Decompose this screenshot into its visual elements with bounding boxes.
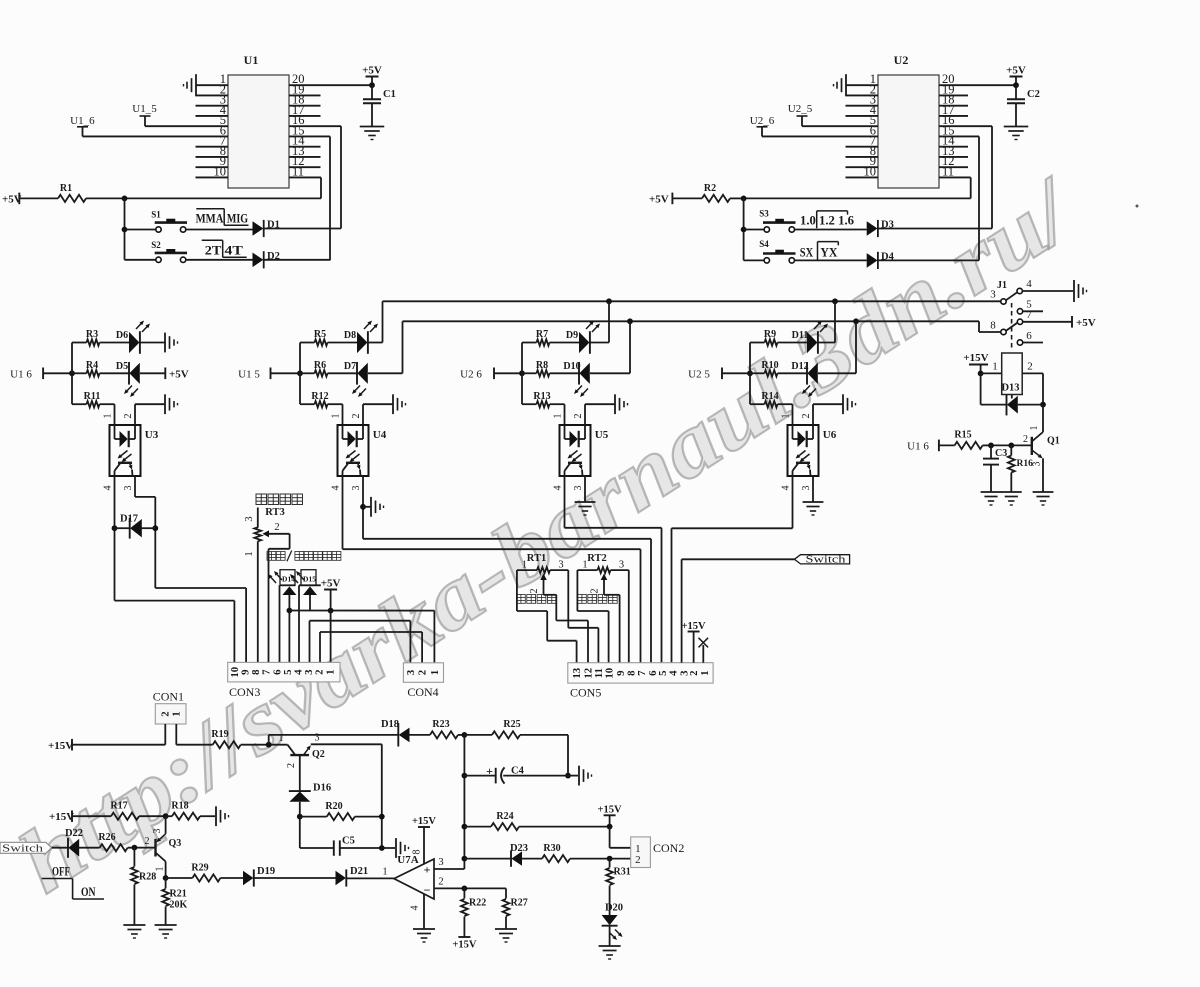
svg-text:11: 11 [942, 164, 954, 178]
wire junction down to S4 [741, 198, 747, 260]
power +15V rail (R17) [49, 810, 74, 823]
wire junction down to S2 [122, 198, 128, 259]
ground below C1 [360, 127, 385, 140]
svg-text:CON3: CON3 [229, 685, 260, 699]
svg-text:+15V: +15V [963, 352, 988, 364]
svg-text:1: 1 [781, 414, 792, 419]
resistor R11 [72, 391, 115, 407]
svg-text:C2: C2 [1027, 89, 1040, 100]
svg-text:+5V: +5V [649, 193, 669, 205]
node C5 right [379, 845, 385, 851]
wire U1 pin15 to D2 cathode [329, 136, 331, 260]
svg-text:1: 1 [1029, 426, 1040, 431]
node R20 left [297, 814, 303, 820]
wire +5V down to CON3 pin1 [330, 611, 332, 663]
IC U2 body [878, 53, 939, 188]
ground at U4 pin2 [393, 394, 406, 414]
node bus A / D9 [606, 298, 612, 304]
node D13 cathode junction [1040, 402, 1046, 408]
svg-text:2: 2 [417, 670, 429, 675]
wire U2 pin16 to D3 cathode [991, 126, 993, 228]
wire S4 to D4 [795, 259, 867, 261]
wire D15 anode stub [309, 595, 311, 611]
wire U6 group vertical [749, 343, 751, 405]
svg-text:U1 6: U1 6 [907, 440, 929, 452]
wire RT1 pin1 to CON5 pin13 [517, 570, 577, 663]
connector CON1 [153, 690, 186, 724]
svg-text:U7A: U7A [397, 854, 418, 866]
J1 switch arm 8-7 [1006, 323, 1017, 331]
node D13 pin1 [978, 371, 984, 377]
svg-text:SX: SX [800, 244, 814, 259]
resistor R18 [166, 801, 215, 820]
U2 left pins 1-10 [846, 72, 879, 178]
wire S1 to D1 [186, 229, 253, 231]
component D13 box [1001, 353, 1022, 395]
resistor R21 [162, 878, 187, 925]
wire D8 to bus A [368, 301, 383, 342]
svg-text:7: 7 [1026, 309, 1032, 321]
svg-text:U5: U5 [595, 429, 609, 441]
wire top rail to D18 [269, 735, 399, 745]
node U4 pin3 / ground [360, 504, 366, 510]
svg-text:R14: R14 [761, 391, 778, 402]
wire S2 to D2 [186, 259, 253, 261]
LED D12 [791, 361, 817, 397]
svg-text:D9: D9 [566, 330, 578, 341]
svg-text:U1_5: U1_5 [132, 103, 157, 115]
svg-text:+15V: +15V [48, 740, 73, 752]
diode D1 [253, 220, 280, 238]
resistor R5 [300, 329, 357, 346]
svg-text:2: 2 [123, 414, 134, 419]
node R17/R18/Q1 [163, 813, 169, 819]
svg-text:R22: R22 [469, 898, 486, 909]
wire U6 pin4 to CON5 pin4 [672, 476, 793, 663]
node R26/R28 [132, 845, 138, 851]
IC U1 body [228, 53, 289, 188]
svg-text:3: 3 [990, 289, 996, 301]
resistor R22 [461, 888, 486, 937]
U3 pin3 stub [123, 486, 134, 491]
wire R11 to U3 pin1 [103, 404, 115, 425]
wire D2 to pin15 net [264, 259, 330, 261]
svg-text:D18: D18 [381, 719, 399, 730]
ground after D6 [165, 333, 178, 353]
power +5V left rail [2, 193, 22, 206]
svg-text:Switch: Switch [806, 555, 847, 566]
svg-text:R21: R21 [170, 889, 187, 900]
wire RT2 pin1 to CON5 pin10 [577, 570, 608, 663]
power +5V indicator rail [321, 578, 341, 611]
LED D15 [290, 570, 321, 595]
net label U1 6 (Q1) [907, 440, 939, 453]
wire U1 pin16 to D1 cathode [340, 126, 342, 228]
resistor R19 [176, 729, 287, 748]
node R19 / D18 rail [266, 742, 272, 748]
wire D7 to bus B [368, 321, 403, 373]
svg-text:U2_5: U2_5 [788, 103, 813, 115]
potentiometer RT2 [577, 553, 628, 595]
node R15/R16 [1008, 443, 1014, 449]
svg-text:R3: R3 [86, 329, 98, 340]
svg-text:R4: R4 [86, 360, 98, 371]
svg-text:U2_6: U2_6 [750, 115, 775, 127]
svg-text:1.2 1.6: 1.2 1.6 [819, 212, 854, 227]
wire U2 5 to junction [722, 370, 753, 376]
resistor R27 [503, 888, 528, 929]
ground below C2 [1004, 127, 1029, 140]
svg-text:R28: R28 [139, 872, 156, 883]
ground below U6 pin3 [803, 502, 824, 515]
J1 pin 5 [1017, 299, 1043, 314]
svg-text:+15V: +15V [49, 811, 74, 823]
svg-text:6: 6 [1026, 330, 1032, 342]
wire U2 pin15 to D4 cathode [978, 136, 980, 260]
svg-text:C5: C5 [342, 836, 355, 847]
wire U7A pin3 [434, 857, 464, 869]
LED D14 [268, 570, 296, 595]
svg-text:U2 5: U2 5 [688, 368, 710, 380]
label MMA/MIG [196, 209, 249, 226]
power +15V at CON5 pin2 [682, 621, 706, 663]
wire R12 to U4 pin1 [331, 404, 343, 425]
net flag Switch (right) [794, 555, 849, 566]
ground at U1 pin 1 [184, 74, 197, 96]
svg-text:2: 2 [438, 876, 443, 887]
no-connect X at CON5 pin1 [699, 638, 709, 663]
svg-text:U1: U1 [244, 53, 259, 67]
switch S4 [744, 239, 796, 263]
optocoupler U3 [110, 425, 159, 476]
svg-text:R1: R1 [60, 183, 72, 194]
svg-text:J1: J1 [997, 280, 1007, 291]
node +5V / CON3 pin1 [328, 608, 334, 614]
LED D8 [344, 321, 378, 354]
svg-text:1: 1 [992, 360, 998, 372]
svg-text:R23: R23 [432, 719, 449, 730]
svg-text:R8: R8 [536, 360, 548, 371]
LED D9 [566, 321, 600, 354]
U4 pin3 stub [351, 486, 362, 491]
net label U1_5 [132, 103, 157, 126]
wire CON1 pin2 down [164, 724, 166, 745]
svg-text:R10: R10 [761, 360, 778, 371]
ground at U3 pin2 [165, 394, 178, 414]
svg-text:R26: R26 [98, 832, 115, 843]
svg-text:2: 2 [801, 414, 812, 419]
resistor R14 [750, 391, 793, 407]
optocoupler U5 [560, 425, 609, 476]
wire R24 node to CON2 pin1 [610, 827, 631, 848]
resistor R3 [72, 329, 129, 346]
wire RT3 wiper to CON3 pin7 [269, 534, 290, 663]
power +5V at U1 pin 20 [362, 65, 382, 86]
wire D3 to pin16 net [878, 228, 992, 230]
wire D13 left branch [981, 373, 1007, 404]
svg-text:R27: R27 [511, 898, 528, 909]
power +15V at R24/CON2 [598, 804, 622, 826]
diode D4 [867, 251, 895, 269]
op-amp U7A [394, 854, 434, 899]
ground at U2 pin 1 [834, 74, 847, 96]
power +5V at U2 pin 20 [1006, 65, 1026, 86]
svg-text:U1_6: U1_6 [70, 115, 95, 127]
resistor R6 [300, 360, 357, 377]
resistor R7 [522, 329, 579, 346]
svg-text:YX: YX [820, 244, 838, 259]
resistor R25 [464, 719, 568, 739]
wire U7A pin2 [434, 876, 506, 888]
wire D21 to U7A output [346, 866, 394, 878]
wire Q2 emitter to R20 net [311, 744, 382, 848]
svg-text:R18: R18 [171, 801, 188, 812]
svg-text:R19: R19 [211, 729, 228, 740]
svg-text:R25: R25 [503, 719, 520, 730]
svg-text:U2 6: U2 6 [460, 368, 482, 380]
node D14 anode rail [287, 608, 293, 614]
resistor R2 [672, 183, 743, 202]
svg-text:+15V: +15V [598, 804, 622, 815]
net label U2 6 (U5 group) [460, 368, 494, 381]
J1 pin 7 [1017, 309, 1032, 324]
svg-text:4: 4 [781, 486, 792, 491]
svg-text:D10: D10 [563, 361, 580, 372]
LED D20 [602, 903, 623, 941]
LED D5 [116, 361, 140, 397]
J1 dashed link [1011, 303, 1013, 351]
net label U1 6 (U3 group) [10, 368, 43, 381]
node pin2/R22 [462, 886, 468, 892]
diode D16 [289, 783, 331, 802]
svg-text:S3: S3 [759, 209, 769, 219]
svg-text:C1: C1 [383, 89, 396, 100]
wire U4 pin3 to CON5 pin6 [363, 476, 651, 663]
label arc-characteristic (CJK) [256, 494, 303, 505]
svg-text:10: 10 [604, 668, 616, 679]
ground after R18 [216, 806, 229, 826]
resistor R4 [72, 360, 129, 377]
resistor R13 [522, 391, 565, 407]
capacitor C1 [363, 85, 396, 126]
U1 right pins 11-20 [289, 72, 372, 178]
svg-text:2: 2 [529, 588, 540, 593]
capacitor C2 [1007, 85, 1040, 126]
label RT2 value (CJK) [578, 595, 618, 604]
J1 pin 6 [1017, 330, 1043, 345]
resistor R29 [166, 863, 243, 882]
label SX/YX [800, 242, 839, 260]
power +15V below R22 [452, 937, 476, 951]
svg-text:D5: D5 [116, 361, 128, 372]
power +5V rail (U2 side) [649, 193, 672, 206]
resistor R28 [131, 848, 156, 925]
node R15/C3 [988, 443, 994, 449]
svg-text:S2: S2 [151, 240, 161, 250]
wire U5 group vertical [521, 343, 523, 405]
wire U1 pin11 to +5V rail [320, 177, 322, 198]
svg-text:2: 2 [590, 588, 601, 593]
svg-text:4: 4 [1026, 278, 1032, 290]
svg-text:1.0: 1.0 [800, 212, 816, 227]
svg-text:+15V: +15V [412, 816, 436, 827]
svg-text:2: 2 [145, 836, 150, 847]
svg-text:3: 3 [351, 486, 362, 491]
svg-text:D13: D13 [1001, 383, 1019, 394]
wire D15 cathode to CON3 pin4 [298, 585, 300, 662]
wire U2_6 to pin 6 [762, 135, 878, 137]
resistor R10 [750, 360, 807, 377]
net label U2 5 (U6 group) [688, 368, 722, 381]
svg-text:RT2: RT2 [587, 553, 606, 564]
svg-text:10: 10 [214, 164, 227, 178]
svg-text:1: 1 [522, 560, 527, 571]
diode D3 [867, 220, 894, 238]
power +15V rail (CON1) [48, 739, 73, 752]
wire U1_5 to pin 5 [145, 125, 228, 127]
wire U3 pin4 to CON3 pin10 [115, 476, 235, 662]
svg-text:CON1: CON1 [153, 690, 184, 704]
svg-text:D8: D8 [344, 330, 356, 341]
svg-text:D22: D22 [65, 828, 83, 839]
wire D12 to bus B [818, 321, 856, 373]
svg-text:1: 1 [244, 551, 255, 556]
svg-text:+5V: +5V [1006, 65, 1026, 77]
net label U1_6 [70, 115, 95, 136]
svg-text:D20: D20 [605, 903, 623, 914]
svg-text:10: 10 [864, 164, 877, 178]
net label U2_6 [750, 115, 775, 136]
svg-text:U1 6: U1 6 [10, 368, 32, 380]
svg-text:11: 11 [292, 164, 304, 178]
svg-text:1: 1 [382, 866, 387, 877]
resistor R20 [300, 801, 382, 820]
svg-text:ON: ON [81, 884, 96, 899]
svg-text:U4: U4 [373, 429, 387, 441]
node U3 pin3 / D17 [152, 525, 158, 531]
transistor Q2 [279, 733, 325, 769]
svg-text:R29: R29 [191, 863, 208, 874]
svg-text:2T: 2T [205, 243, 222, 258]
svg-text:D19: D19 [257, 866, 275, 877]
connector CON4 [403, 663, 443, 699]
wire RT1 pin3 to CON5 pin11 [568, 570, 598, 663]
svg-text:U6: U6 [823, 429, 837, 441]
svg-text:Switch: Switch [2, 843, 44, 854]
wire D1 to pin16 net [264, 228, 341, 230]
svg-text:R5: R5 [314, 329, 326, 340]
ground below U5 pin3 [575, 502, 596, 515]
svg-text:D15: D15 [303, 575, 316, 584]
svg-text:1: 1 [699, 670, 711, 675]
resistor R12 [300, 391, 343, 407]
svg-text:+5V: +5V [169, 368, 189, 380]
svg-text:2: 2 [1023, 434, 1028, 445]
wire D20 to ground [609, 926, 611, 946]
svg-text:R24: R24 [496, 811, 513, 822]
svg-text:D12: D12 [791, 361, 808, 372]
wire U2_5 to pin 5 [802, 125, 878, 127]
svg-text:S1: S1 [151, 210, 161, 220]
ground after C5 [396, 838, 409, 858]
svg-text:R9: R9 [764, 329, 776, 340]
svg-text:D6: D6 [116, 330, 128, 341]
wire U3 group vertical [71, 343, 73, 405]
U7A pin8 +15V [412, 816, 437, 864]
svg-text:S4: S4 [759, 239, 769, 249]
svg-text:CON2: CON2 [653, 841, 684, 855]
svg-text:2: 2 [274, 522, 279, 533]
U2 right pins 11-20 [939, 72, 1016, 178]
wire U6 pin2 to row [801, 404, 843, 425]
svg-text:OFF: OFF [52, 864, 70, 879]
label OFF/ON waveform [42, 864, 104, 900]
wire anode rail to CON4 pin1 [289, 611, 434, 663]
U7A pin4 ground [410, 894, 425, 929]
svg-text:R12: R12 [311, 391, 328, 402]
diode D23 [464, 843, 528, 867]
svg-text:3: 3 [123, 486, 134, 491]
node bus B / D10 [627, 318, 633, 324]
node +15V/CON2 pin1 [607, 824, 613, 830]
ground below R16 [1001, 492, 1022, 505]
J1 pin 3 [990, 289, 1006, 305]
wire U5 pin2 to row [573, 404, 615, 425]
wire CON3 pin3 to CON4 pin3 [310, 621, 411, 663]
node R24 branch [462, 824, 468, 830]
potentiometer RT3 [244, 507, 290, 662]
svg-text:+5V: +5V [1076, 317, 1096, 329]
svg-text:R11: R11 [84, 391, 101, 402]
wire D14 cathode to CON3 pin6 [279, 585, 281, 662]
diode D2 [253, 251, 280, 269]
diode D17 [115, 514, 156, 539]
speck [1136, 205, 1139, 208]
U5 pin3 stub [573, 486, 584, 491]
ground below R28 [123, 925, 145, 938]
transistor Q1 [1023, 405, 1060, 492]
wire R23 node down [463, 735, 465, 869]
resistor R17 [72, 801, 166, 820]
wire D16 to R20/C5 [299, 802, 301, 848]
svg-text:4: 4 [103, 486, 114, 491]
wire D19 to D21 [254, 877, 336, 879]
wire D13 pin2 down [1022, 360, 1043, 404]
capacitor C3 [983, 445, 1007, 492]
wire U6 pin3 to ground [812, 476, 814, 502]
wire D14 anode down [288, 595, 290, 662]
wire J1 pin4 to ground [1022, 290, 1073, 292]
U6 pin4 stub [781, 486, 792, 491]
wire D9 to bus A [590, 301, 609, 342]
watermark [2, 159, 1094, 912]
svg-text:1: 1 [429, 670, 441, 675]
LED D7 [344, 361, 368, 397]
wire CON1 pin1 down [175, 724, 177, 745]
node bus B / D12 [853, 318, 859, 324]
svg-text:3: 3 [573, 486, 584, 491]
svg-text:20K: 20K [170, 900, 188, 911]
resistor R1 [19, 183, 124, 202]
net flag Switch (bottom left) [0, 842, 52, 854]
svg-text:R7: R7 [536, 329, 548, 340]
node R2/S3 junction [741, 196, 747, 202]
node bus A / D11 [832, 298, 838, 304]
wire U3 pin2 to row [123, 404, 165, 425]
switch S3 [744, 209, 796, 233]
U4 pin4 stub [331, 486, 342, 491]
svg-text:3: 3 [438, 857, 443, 868]
